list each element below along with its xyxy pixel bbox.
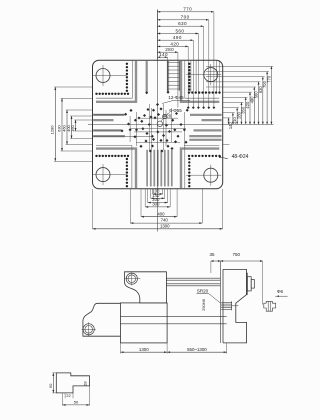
svg-text:420: 420	[170, 41, 179, 46]
lower bracket hole	[83, 324, 94, 335]
svg-text:250H8: 250H8	[201, 298, 206, 311]
injection barrel front	[246, 273, 247, 294]
secondary hole circle	[163, 115, 167, 119]
bolt hole dots bottom-left L	[95, 155, 97, 157]
dimension 400 (left)	[71, 116, 73, 139]
right arm T-slots	[190, 114, 222, 116]
svg-text:140: 140	[159, 52, 168, 57]
bottom extension lines	[152, 189, 154, 194]
tie-bar hole bottom-right	[204, 168, 218, 182]
T-slot band bottom-left	[96, 149, 136, 189]
thin companion line top-right	[185, 61, 220, 99]
dimension 1280 (left)	[54, 87, 56, 161]
left extension lines	[54, 86, 92, 88]
svg-text:490: 490	[173, 35, 182, 40]
nozzle tip	[251, 280, 254, 289]
dimension 100 (bottom)	[153, 193, 163, 195]
bolt hole dots top-right L	[188, 91, 190, 93]
dimension 420 (right)	[249, 92, 251, 124]
top arm T-slots	[146, 61, 148, 93]
svg-text:300: 300	[152, 202, 160, 207]
dimension 550-1300 (side view)	[167, 351, 227, 353]
locating hole circle	[157, 121, 162, 126]
dimension 700 (right)	[266, 72, 268, 125]
svg-text:12-Φ45: 12-Φ45	[168, 95, 184, 100]
dimension 1300 (bottom)	[93, 228, 223, 230]
dimension 280 (top)	[157, 51, 178, 53]
hole position arrowheads row	[187, 92, 189, 107]
svg-text:770: 770	[266, 75, 271, 83]
hole pitch ladder	[167, 61, 169, 91]
dimension 490 (top)	[157, 39, 193, 41]
fixed platen body	[223, 269, 247, 343]
dimension 740 (bottom)	[130, 222, 202, 224]
svg-text:50: 50	[48, 383, 53, 388]
svg-text:28: 28	[82, 381, 87, 386]
svg-text:700: 700	[181, 15, 190, 20]
svg-text:630: 630	[178, 21, 187, 26]
svg-text:6-Φ55: 6-Φ55	[169, 108, 182, 113]
detail dim 50 left	[52, 372, 56, 374]
dimension 770 (top)	[157, 11, 214, 13]
dimension 140 (top)	[157, 56, 167, 58]
top dim extension lines into plate	[213, 12, 215, 93]
T-slot band top-right	[181, 61, 219, 102]
svg-text:740: 740	[161, 218, 169, 223]
T-slot band top-left	[96, 61, 136, 102]
svg-text:400: 400	[157, 211, 165, 216]
frame rails	[121, 316, 227, 318]
horizontal centerline	[88, 123, 274, 125]
svg-text:50: 50	[74, 400, 79, 405]
upper bracket hole	[126, 273, 137, 284]
dimension 630 (left)	[61, 98, 63, 151]
locating ring hatch	[221, 301, 232, 303]
svg-text:770: 770	[183, 7, 192, 12]
moving platen block	[121, 303, 168, 343]
dimension 70 (right)	[228, 118, 230, 125]
svg-text:560: 560	[175, 28, 184, 33]
moving platen upper bracket (side view)	[125, 272, 167, 303]
thin companion line bottom-right	[185, 146, 220, 189]
dimension 200 (bottom)	[148, 202, 168, 204]
eyebolt bushing	[264, 301, 276, 311]
platen plate outline (top view)	[93, 60, 223, 189]
left arm T-slots	[93, 114, 124, 116]
tie-bar hole top-right	[204, 68, 218, 82]
svg-text:Φ6: Φ6	[277, 289, 284, 294]
centre connecting lines	[148, 104, 150, 150]
bolt hole dots bottom-right L	[188, 155, 190, 157]
T-slot detail outline	[56, 373, 89, 393]
svg-text:1280: 1280	[50, 125, 55, 135]
bottom arm ejector slot columns	[146, 150, 148, 187]
dimension 350 (right)	[245, 97, 247, 124]
svg-text:48-Φ24: 48-Φ24	[232, 154, 249, 160]
dimension 560 (right)	[258, 82, 260, 125]
dimension 160 (left)	[75, 120, 77, 131]
dimension 140 (bottom)	[151, 197, 165, 199]
svg-text:Φ20: Φ20	[163, 114, 172, 119]
svg-text:SR20: SR20	[197, 288, 209, 293]
dimension 630 (right)	[262, 77, 264, 125]
svg-text:1300: 1300	[160, 223, 170, 228]
dimension 1300 (side view)	[120, 343, 122, 354]
svg-text:1300: 1300	[139, 347, 149, 352]
dimension 770 (right)	[270, 66, 272, 124]
svg-text:550~1300: 550~1300	[187, 347, 207, 352]
top dimension stack datum line	[156, 10, 158, 61]
svg-text:35: 35	[209, 252, 215, 257]
dimension 400 (bottom)	[141, 216, 177, 218]
dimension 560 (top)	[157, 33, 198, 35]
svg-text:22: 22	[66, 393, 71, 398]
thin companion line top-left	[96, 61, 132, 99]
dimension 210 (right)	[236, 108, 238, 125]
vertical centerline	[156, 10, 158, 232]
dimension 700 (top)	[157, 19, 208, 21]
T-slot band bottom-right	[181, 149, 219, 189]
tie bar lines upper	[166, 277, 220, 279]
moving platen lower bracket	[83, 303, 121, 336]
dimension 630 (top)	[157, 25, 203, 27]
svg-text:160: 160	[70, 124, 75, 131]
fixed platen face lines	[220, 261, 222, 343]
tie-bar hole bottom-left	[96, 168, 110, 182]
tie-bar hole top-left	[96, 69, 110, 83]
dimension 420 (top)	[157, 45, 188, 47]
dimension 300 (bottom)	[145, 206, 170, 208]
hole markers around centre	[152, 109, 155, 112]
dimension 280 (right)	[240, 102, 242, 124]
svg-text:750: 750	[233, 252, 241, 257]
bolt hole dots top-left L	[95, 93, 97, 95]
dimension 140 (right)	[232, 113, 234, 125]
dimension 460 (left)	[66, 110, 68, 145]
thin companion line bottom-left	[96, 146, 132, 189]
dimension 490 (right)	[253, 87, 255, 124]
tie bar lines lower	[166, 283, 220, 285]
detail dim 50 bottom	[89, 386, 91, 406]
